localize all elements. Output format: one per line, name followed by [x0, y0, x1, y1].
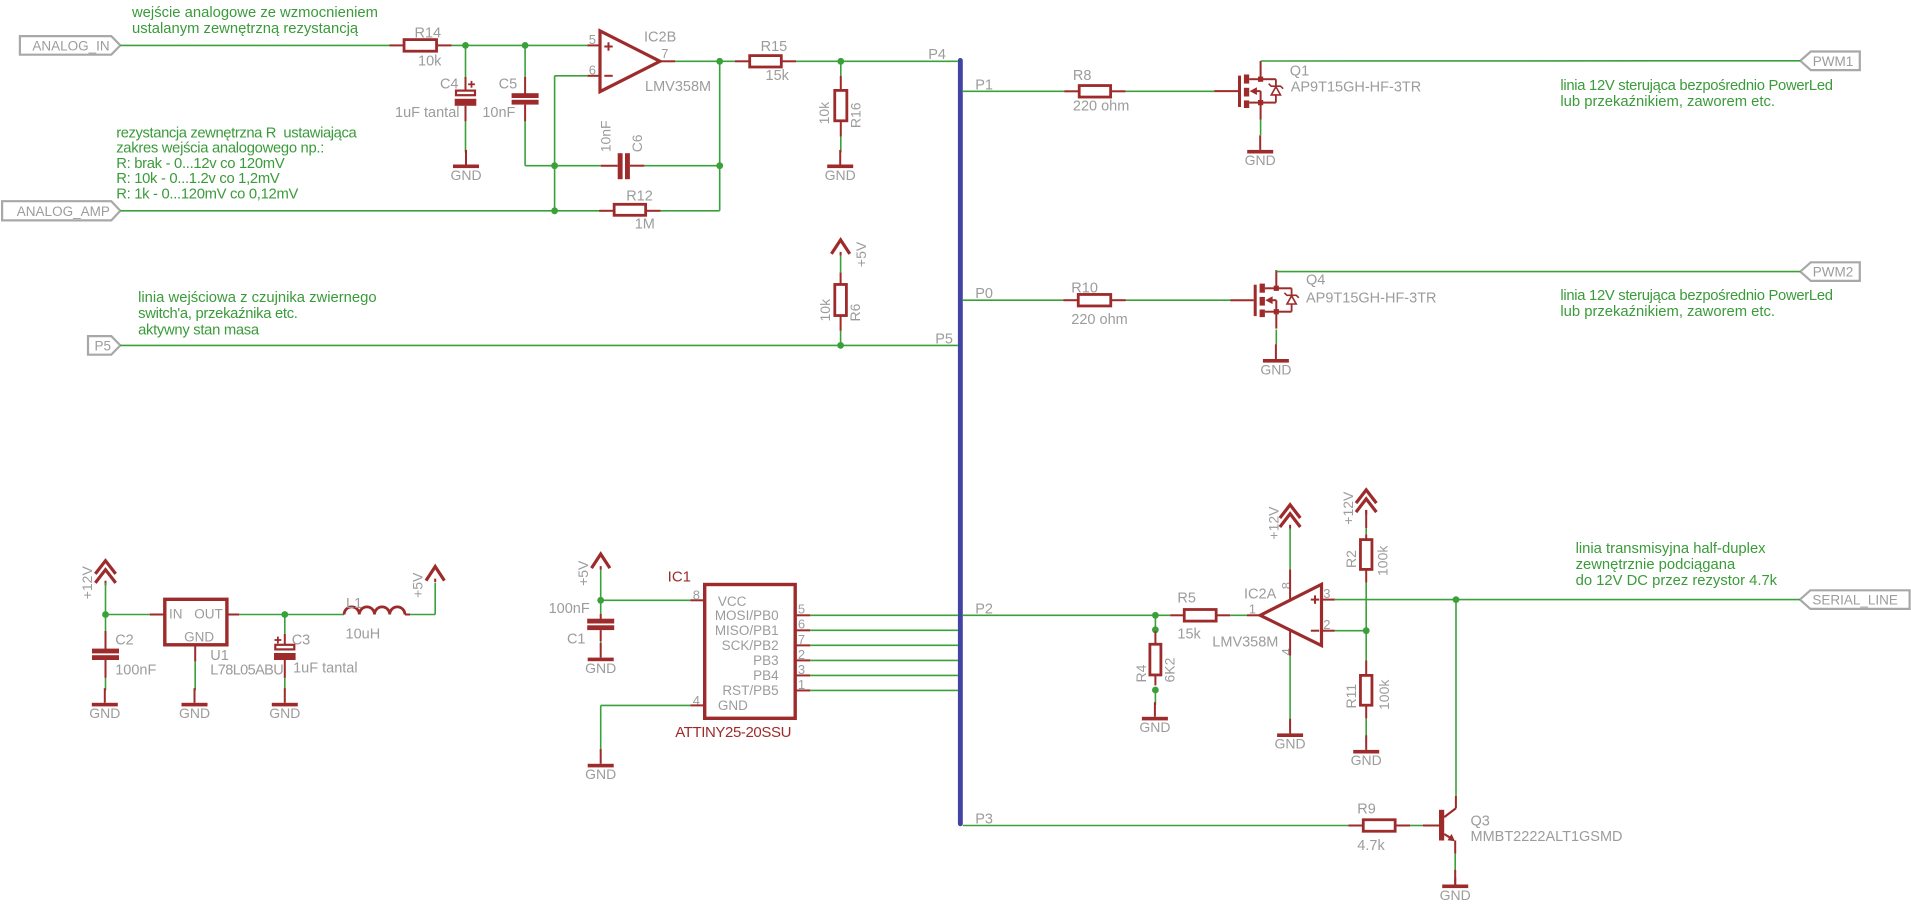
svg-text:7: 7 [661, 46, 668, 61]
svg-text:GND: GND [585, 660, 616, 676]
svg-text:15k: 15k [1177, 627, 1201, 643]
svg-text:linia wejściowa z czujnika zwi: linia wejściowa z czujnika zwiernego [138, 290, 377, 306]
svg-text:GND: GND [718, 698, 748, 713]
svg-text:SCK/PB2: SCK/PB2 [722, 638, 779, 653]
svg-text:L78L05ABU: L78L05ABU [210, 663, 283, 679]
svg-text:4.7k: 4.7k [1357, 838, 1385, 854]
svg-text:10nF: 10nF [482, 105, 515, 121]
svg-text:P5: P5 [935, 331, 953, 347]
svg-text:R4: R4 [1133, 664, 1149, 682]
svg-text:GND: GND [450, 167, 481, 183]
svg-text:1uF tantal: 1uF tantal [395, 105, 460, 121]
svg-text:GND: GND [1139, 719, 1170, 735]
svg-text:1: 1 [1249, 602, 1256, 617]
svg-text:GND: GND [585, 766, 616, 782]
svg-text:P5: P5 [95, 339, 112, 354]
svg-text:100k: 100k [1376, 679, 1392, 710]
svg-text:1M: 1M [635, 216, 655, 232]
svg-text:GND: GND [1351, 752, 1382, 768]
svg-text:R: 1k - 0...120mV co 0,12mV: R: 1k - 0...120mV co 0,12mV [116, 187, 298, 203]
svg-text:zewnętrznie podciągana: zewnętrznie podciągana [1576, 557, 1736, 573]
svg-text:PB3: PB3 [753, 653, 779, 668]
svg-text:GND: GND [1275, 736, 1306, 752]
svg-text:linia transmisyjna half-duplex: linia transmisyjna half-duplex [1576, 541, 1767, 557]
svg-text:GND: GND [184, 630, 214, 645]
svg-text:LMV358M: LMV358M [645, 79, 711, 95]
svg-text:R15: R15 [761, 39, 788, 55]
svg-text:PWM2: PWM2 [1813, 265, 1854, 280]
svg-text:4: 4 [1279, 648, 1294, 655]
svg-text:R5: R5 [1177, 590, 1196, 606]
svg-text:C6: C6 [629, 134, 645, 152]
svg-text:do 12V DC przez rezystor 4.7k: do 12V DC przez rezystor 4.7k [1576, 573, 1778, 589]
svg-text:C1: C1 [567, 631, 586, 647]
svg-text:IN: IN [169, 607, 183, 622]
svg-text:C3: C3 [292, 632, 311, 648]
svg-text:+5V: +5V [410, 572, 426, 598]
svg-text:10uH: 10uH [346, 627, 381, 643]
svg-text:PWM1: PWM1 [1813, 54, 1854, 69]
svg-text:MMBT2222ALT1GSMD: MMBT2222ALT1GSMD [1471, 829, 1623, 845]
svg-text:R: brak - 0...12v co 120mV: R: brak - 0...12v co 120mV [116, 156, 285, 172]
svg-text:C2: C2 [115, 632, 134, 648]
svg-text:switch'a, przekaźnika etc.: switch'a, przekaźnika etc. [138, 306, 298, 322]
svg-text:RST/PB5: RST/PB5 [722, 683, 778, 698]
svg-text:C4: C4 [440, 77, 459, 93]
svg-text:6K2: 6K2 [1162, 657, 1178, 682]
svg-text:rezystancja zewnętrzna R usta: rezystancja zewnętrzna R ustawiająca [116, 125, 357, 141]
svg-text:R2: R2 [1343, 550, 1359, 568]
svg-text:10nF: 10nF [598, 120, 614, 152]
svg-text:LMV358M: LMV358M [1212, 635, 1278, 651]
svg-text:P1: P1 [975, 77, 993, 93]
svg-text:8: 8 [693, 588, 700, 603]
svg-text:GND: GND [1245, 152, 1276, 168]
svg-text:IC2B: IC2B [644, 29, 676, 45]
svg-text:8: 8 [1279, 582, 1294, 589]
svg-text:+5V: +5V [853, 241, 869, 267]
svg-text:SERIAL_LINE: SERIAL_LINE [1812, 593, 1898, 608]
svg-text:R14: R14 [415, 26, 442, 42]
svg-text:R9: R9 [1357, 802, 1376, 818]
svg-text:IC1: IC1 [668, 569, 691, 586]
svg-text:10k: 10k [816, 101, 832, 125]
svg-text:aktywny stan masa: aktywny stan masa [138, 322, 260, 338]
svg-text:P0: P0 [975, 286, 993, 302]
svg-text:C5: C5 [499, 77, 518, 93]
svg-text:wejście analogowe ze wzmocnien: wejście analogowe ze wzmocnieniem [131, 5, 378, 21]
svg-text:1uF tantal: 1uF tantal [293, 660, 358, 676]
svg-text:GND: GND [179, 705, 210, 721]
svg-text:+12V: +12V [1266, 506, 1282, 540]
svg-text:Q1: Q1 [1290, 64, 1309, 80]
svg-text:linia 12V sterująca bezpośredn: linia 12V sterująca bezpośrednio PowerLe… [1560, 78, 1832, 94]
svg-text:ANALOG_IN: ANALOG_IN [32, 39, 109, 54]
svg-text:+12V: +12V [1340, 491, 1356, 525]
svg-text:6: 6 [589, 62, 596, 77]
svg-text:IC2A: IC2A [1244, 587, 1277, 603]
svg-text:100nF: 100nF [549, 601, 590, 617]
svg-text:220 ohm: 220 ohm [1073, 99, 1129, 115]
svg-text:10k: 10k [418, 54, 442, 70]
svg-text:PB4: PB4 [753, 668, 779, 683]
svg-text:GND: GND [89, 705, 120, 721]
svg-text:linia 12V sterująca bezpośredn: linia 12V sterująca bezpośrednio PowerLe… [1560, 288, 1832, 304]
svg-text:15k: 15k [766, 68, 790, 84]
svg-text:OUT: OUT [194, 607, 223, 622]
svg-text:zakres wejścia analogowego np.: zakres wejścia analogowego np.: [116, 141, 324, 157]
svg-text:AP9T15GH-HF-3TR: AP9T15GH-HF-3TR [1291, 80, 1422, 96]
svg-text:ustalanym zewnętrzną rezystanc: ustalanym zewnętrzną rezystancją [132, 21, 359, 37]
svg-text:U1: U1 [210, 648, 229, 664]
svg-text:10k: 10k [817, 298, 833, 322]
svg-text:ATTINY25-20SSU: ATTINY25-20SSU [675, 724, 791, 741]
svg-text:AP9T15GH-HF-3TR: AP9T15GH-HF-3TR [1306, 290, 1437, 306]
svg-text:R10: R10 [1071, 280, 1098, 296]
svg-text:R12: R12 [626, 188, 653, 204]
svg-text:+12V: +12V [79, 566, 95, 600]
svg-text:+5V: +5V [575, 560, 591, 586]
svg-text:220 ohm: 220 ohm [1071, 312, 1127, 328]
svg-text:R16: R16 [848, 102, 864, 128]
svg-text:R11: R11 [1343, 684, 1359, 709]
svg-text:lub przekaźnikiem, zaworem etc: lub przekaźnikiem, zaworem etc. [1560, 94, 1775, 110]
svg-text:R: 10k - 0...1.2v co 1,2mV: R: 10k - 0...1.2v co 1,2mV [116, 171, 280, 187]
svg-text:GND: GND [825, 167, 856, 183]
svg-text:MOSI/PB0: MOSI/PB0 [715, 608, 779, 623]
svg-text:ANALOG_AMP: ANALOG_AMP [17, 204, 110, 219]
svg-text:5: 5 [589, 32, 596, 47]
svg-text:100nF: 100nF [115, 662, 156, 678]
svg-text:100k: 100k [1375, 545, 1391, 576]
svg-text:R8: R8 [1073, 68, 1092, 84]
svg-text:P4: P4 [928, 47, 946, 63]
svg-text:R6: R6 [847, 303, 863, 321]
svg-text:Q4: Q4 [1306, 272, 1325, 288]
svg-text:L1: L1 [346, 596, 362, 612]
svg-text:GND: GND [269, 705, 300, 721]
svg-text:lub przekaźnikiem, zaworem etc: lub przekaźnikiem, zaworem etc. [1560, 304, 1775, 320]
svg-text:GND: GND [1440, 887, 1471, 903]
svg-text:GND: GND [1260, 361, 1291, 377]
svg-text:MISO/PB1: MISO/PB1 [715, 623, 779, 638]
svg-text:Q3: Q3 [1471, 813, 1490, 829]
